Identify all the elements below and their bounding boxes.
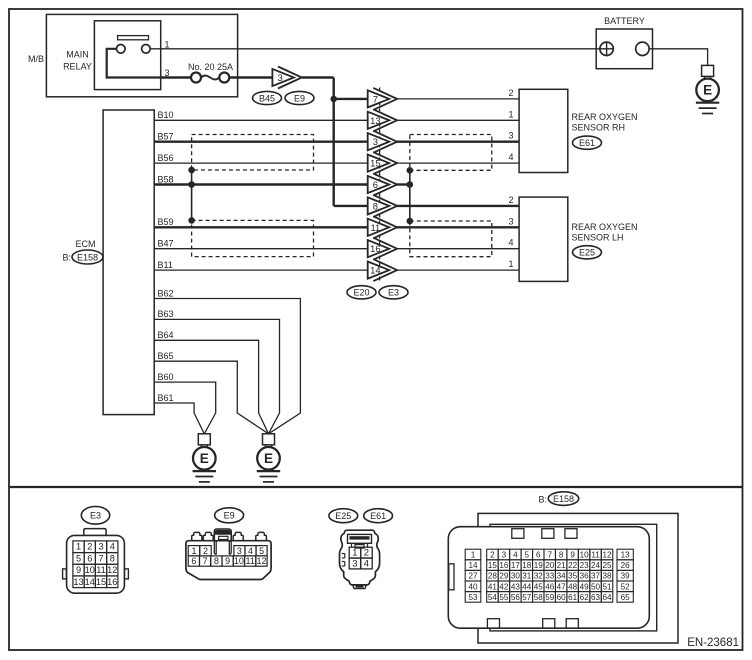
svg-text:E3: E3 [90, 511, 101, 521]
svg-text:RELAY: RELAY [63, 62, 92, 72]
label E9 [285, 91, 314, 104]
svg-text:26: 26 [621, 561, 631, 570]
svg-text:35: 35 [568, 572, 578, 581]
wire B62 [154, 299, 300, 434]
svg-text:B59: B59 [158, 217, 174, 227]
relay contact terminals [117, 45, 126, 54]
svg-text:55: 55 [499, 593, 509, 602]
wire E20/E3 pin 11 to sensor pin 3 [396, 226, 519, 228]
connector B45/E9 pin 3 [272, 69, 294, 86]
svg-text:36: 36 [580, 572, 590, 581]
svg-text:8: 8 [110, 553, 115, 563]
svg-text:25: 25 [603, 561, 613, 570]
svg-text:13: 13 [370, 115, 380, 126]
svg-text:E25: E25 [579, 248, 595, 258]
svg-text:31: 31 [522, 572, 532, 581]
svg-text:B47: B47 [158, 239, 174, 249]
svg-text:4: 4 [364, 558, 369, 569]
svg-text:11: 11 [96, 565, 106, 575]
svg-text:16: 16 [370, 243, 380, 254]
svg-text:34: 34 [557, 572, 567, 581]
svg-text:23: 23 [580, 561, 590, 570]
svg-text:ECM: ECM [76, 239, 96, 249]
svg-text:E158: E158 [77, 252, 98, 262]
svg-text:4: 4 [508, 152, 513, 162]
svg-text:6: 6 [536, 551, 541, 560]
svg-text:4: 4 [110, 542, 115, 552]
svg-text:10: 10 [234, 556, 244, 566]
svg-text:24: 24 [591, 561, 601, 570]
connector E20/E3 pin 11 [368, 219, 390, 236]
connector E20/E3 pin 8 [368, 197, 390, 214]
battery box [596, 29, 652, 69]
svg-text:65: 65 [621, 593, 631, 602]
svg-text:B63: B63 [158, 309, 174, 319]
svg-text:2: 2 [203, 546, 208, 556]
wire E20/E3 pin 8 to sensor pin 2 [396, 205, 519, 207]
wire supply horizontal [302, 76, 334, 78]
svg-text:53: 53 [468, 593, 478, 602]
svg-text:52: 52 [621, 582, 631, 591]
svg-text:B57: B57 [158, 132, 174, 142]
svg-text:22: 22 [568, 561, 578, 570]
svg-text:39: 39 [621, 572, 631, 581]
connector view E158 back plate [478, 513, 678, 643]
svg-text:28: 28 [488, 572, 498, 581]
connector view E25/E61 pin grid [349, 547, 361, 558]
wire B11 [154, 269, 367, 271]
ground E ECM right [263, 434, 275, 445]
label E9 (bottom view) [215, 508, 244, 523]
svg-text:5: 5 [259, 546, 264, 556]
svg-text:29: 29 [499, 572, 509, 581]
svg-text:17: 17 [511, 561, 521, 570]
svg-text:1: 1 [352, 548, 357, 559]
label E61 [573, 136, 602, 149]
rear oxygen sensor LH box [519, 197, 568, 281]
svg-text:E25: E25 [335, 511, 351, 521]
junction dot left shield RH [188, 167, 195, 174]
svg-text:7: 7 [373, 93, 378, 104]
connector view E9 pin grid [188, 546, 200, 556]
shield left LH (dashed) [192, 220, 314, 256]
svg-text:16: 16 [107, 577, 117, 587]
svg-text:14: 14 [370, 265, 380, 276]
shield right RH (dashed) [410, 135, 492, 171]
wire E20/E3 pin 13 to sensor pin 1 [396, 119, 519, 121]
svg-text:REAR OXYGEN: REAR OXYGEN [572, 112, 638, 122]
wire E20/E3 pin 14 to sensor pin 1 [396, 269, 519, 271]
svg-text:16: 16 [499, 561, 509, 570]
svg-text:13: 13 [73, 577, 83, 587]
junction dot right row 6 [407, 181, 414, 188]
svg-text:6: 6 [87, 553, 92, 563]
svg-text:4: 4 [508, 238, 513, 248]
label E3 [379, 286, 408, 299]
svg-text:MAIN: MAIN [66, 50, 89, 60]
svg-text:51: 51 [603, 582, 613, 591]
svg-text:BATTERY: BATTERY [604, 16, 645, 26]
ECM box [103, 110, 154, 415]
svg-text:B11: B11 [158, 260, 173, 270]
svg-text:27: 27 [468, 572, 478, 581]
svg-text:B61: B61 [158, 393, 174, 403]
svg-text:2: 2 [490, 551, 495, 560]
wire fuse to connector B45/E9 [229, 76, 272, 78]
wire battery to ground [649, 49, 708, 66]
connector view E158 body [448, 527, 649, 629]
svg-text:E9: E9 [294, 93, 305, 103]
shield drain wire right [409, 170, 411, 221]
svg-text:B60: B60 [158, 372, 174, 382]
svg-text:59: 59 [545, 593, 555, 602]
svg-text:1: 1 [191, 546, 196, 556]
svg-text:E158: E158 [553, 494, 574, 504]
svg-text:15: 15 [96, 577, 106, 587]
svg-text:1: 1 [508, 259, 513, 269]
svg-text:B64: B64 [158, 330, 174, 340]
connector view E158 inner plate [490, 524, 657, 631]
svg-text:10: 10 [580, 551, 590, 560]
svg-text:38: 38 [603, 572, 613, 581]
svg-text:12: 12 [107, 565, 117, 575]
connector E20/E3 pin 15 [368, 155, 390, 172]
wire relay pin1 to battery [150, 48, 600, 50]
wire B61 [154, 403, 204, 434]
shield left RH (dashed) [192, 135, 314, 171]
svg-text:12: 12 [603, 551, 613, 560]
shield right LH (dashed) [410, 221, 492, 257]
svg-text:7: 7 [547, 551, 552, 560]
wire supply to pin 8 [334, 205, 368, 207]
svg-text:3: 3 [98, 542, 103, 552]
svg-text:3: 3 [508, 131, 513, 141]
svg-text:19: 19 [534, 561, 544, 570]
svg-text:E61: E61 [370, 511, 386, 521]
svg-text:B10: B10 [158, 110, 174, 120]
svg-text:8: 8 [373, 200, 378, 211]
wire E20/E3 pin 3 to sensor pin 3 [396, 140, 519, 142]
svg-text:SENSOR RH: SENSOR RH [572, 122, 626, 132]
label E20 [347, 286, 376, 299]
svg-text:B45: B45 [259, 93, 275, 103]
connector E20/E3 pin 14 [368, 262, 390, 279]
connector view E3 pin grid [73, 541, 84, 553]
svg-text:40: 40 [468, 582, 478, 591]
svg-text:1: 1 [471, 551, 476, 560]
svg-text:47: 47 [557, 582, 567, 591]
shield drain wire left [191, 170, 193, 220]
wire E20/E3 pin 16 to sensor pin 4 [396, 248, 519, 250]
fuse No. 20 25A [191, 73, 201, 83]
svg-text:50: 50 [591, 582, 601, 591]
svg-text:56: 56 [511, 593, 521, 602]
svg-text:43: 43 [511, 582, 521, 591]
svg-text:B62: B62 [158, 288, 174, 298]
svg-text:21: 21 [557, 561, 567, 570]
svg-text:48: 48 [568, 582, 578, 591]
svg-text:E20: E20 [353, 288, 369, 298]
label E25 (bottom view) [329, 509, 358, 523]
svg-text:B56: B56 [158, 153, 174, 163]
label E25 [573, 246, 602, 259]
svg-text:B65: B65 [158, 351, 174, 361]
svg-text:9: 9 [570, 551, 575, 560]
wire E20/E3 pin 7 to sensor pin 2 [396, 98, 519, 100]
ground E battery [702, 65, 714, 76]
svg-text:3: 3 [373, 136, 378, 147]
wire B63 [154, 319, 279, 433]
svg-text:7: 7 [98, 553, 103, 563]
battery positive terminal [600, 42, 613, 55]
svg-text:46: 46 [545, 582, 555, 591]
svg-text:3: 3 [237, 546, 242, 556]
junction dot right shield RH [407, 167, 414, 174]
svg-text:62: 62 [580, 593, 590, 602]
svg-text:11: 11 [591, 551, 600, 560]
svg-text:37: 37 [591, 572, 601, 581]
svg-text:B:: B: [538, 494, 547, 504]
junction dot left shield LH [188, 217, 195, 224]
svg-text:41: 41 [488, 582, 498, 591]
svg-text:11: 11 [246, 556, 255, 566]
svg-text:13: 13 [621, 551, 631, 560]
svg-text:14: 14 [468, 561, 478, 570]
svg-text:REAR OXYGEN: REAR OXYGEN [572, 222, 638, 232]
svg-text:B58: B58 [158, 174, 174, 184]
svg-text:30: 30 [511, 572, 521, 581]
svg-text:E3: E3 [388, 288, 399, 298]
svg-text:15: 15 [488, 561, 498, 570]
main relay box [94, 21, 160, 90]
connector view E158 pin grid [465, 549, 481, 560]
svg-text:SENSOR LH: SENSOR LH [572, 232, 624, 242]
svg-text:6: 6 [191, 556, 196, 566]
svg-text:6: 6 [373, 179, 378, 190]
wire E20/E3 pin 15 to sensor pin 4 [396, 162, 519, 164]
svg-text:B:: B: [62, 253, 71, 263]
svg-text:42: 42 [499, 582, 509, 591]
svg-text:E: E [200, 451, 209, 466]
svg-text:4: 4 [248, 546, 253, 556]
svg-text:No. 20 25A: No. 20 25A [188, 62, 233, 72]
connector E20/E3 pin 6 [368, 176, 390, 193]
wire B57 [154, 140, 367, 142]
wire B59 [154, 226, 367, 228]
connector view E25/E61 body [340, 530, 380, 585]
svg-text:9: 9 [225, 556, 230, 566]
svg-text:M/B: M/B [28, 54, 44, 64]
connector E20/E3 pin 13 [368, 112, 390, 129]
relay coil [118, 36, 149, 40]
connector E20/E3 pin 16 [368, 240, 390, 257]
M/B fuse box [46, 14, 237, 96]
svg-text:5: 5 [525, 551, 530, 560]
svg-text:54: 54 [488, 593, 498, 602]
svg-text:33: 33 [545, 572, 555, 581]
svg-text:5: 5 [76, 553, 81, 563]
svg-text:2: 2 [364, 548, 369, 559]
svg-text:4: 4 [513, 551, 518, 560]
svg-text:11: 11 [371, 222, 381, 233]
svg-text:EN-23681: EN-23681 [687, 637, 739, 649]
label B45 [253, 91, 282, 104]
svg-text:2: 2 [508, 195, 513, 205]
svg-text:44: 44 [522, 582, 532, 591]
svg-text:3: 3 [352, 558, 357, 569]
wire supply vertical [333, 78, 335, 206]
svg-text:49: 49 [580, 582, 590, 591]
ground E ECM left [198, 434, 210, 445]
wire B58 [154, 183, 367, 185]
svg-text:2: 2 [87, 542, 92, 552]
junction dot supply row 7 [330, 96, 337, 103]
connector E20/E3 pin 3 [368, 133, 390, 150]
wire E20/E3 pin 6 to shield drain junction [396, 183, 410, 185]
connector E20/E3 separation line (dashed) [379, 88, 381, 283]
svg-text:64: 64 [603, 593, 613, 602]
svg-text:32: 32 [534, 572, 544, 581]
svg-text:3: 3 [508, 216, 513, 226]
section separator line [9, 486, 743, 488]
svg-text:12: 12 [256, 556, 266, 566]
wire B56 [154, 162, 367, 164]
svg-text:61: 61 [568, 593, 578, 602]
svg-text:10: 10 [85, 565, 95, 575]
rear oxygen sensor RH box [519, 89, 568, 172]
wire B64 [154, 340, 268, 434]
svg-text:18: 18 [522, 561, 532, 570]
svg-text:60: 60 [557, 593, 567, 602]
svg-text:1: 1 [508, 109, 513, 119]
svg-text:20: 20 [545, 561, 555, 570]
svg-text:E: E [703, 83, 712, 98]
svg-text:2: 2 [508, 88, 513, 98]
connector view E9 body [192, 532, 202, 540]
svg-text:1: 1 [76, 542, 81, 552]
wire B47 [154, 248, 367, 250]
label E61 (bottom view) [364, 509, 393, 523]
svg-text:1: 1 [165, 40, 170, 50]
svg-text:63: 63 [591, 593, 601, 602]
svg-text:58: 58 [534, 593, 544, 602]
wire supply to pin 7 [334, 98, 368, 100]
label E3 (bottom view) [81, 507, 109, 525]
svg-text:9: 9 [76, 565, 81, 575]
junction dot left B58 [188, 181, 195, 188]
svg-text:8: 8 [559, 551, 564, 560]
wire B10 [154, 119, 367, 121]
svg-text:57: 57 [522, 593, 532, 602]
svg-text:3: 3 [277, 72, 282, 83]
svg-text:7: 7 [203, 556, 208, 566]
connector view E3 shell [84, 529, 106, 536]
svg-text:45: 45 [534, 582, 544, 591]
svg-text:14: 14 [85, 577, 95, 587]
svg-text:E61: E61 [579, 138, 595, 148]
svg-text:E: E [264, 451, 273, 466]
connector E20/E3 pin 7 [368, 90, 390, 107]
relay contact arm wire [107, 49, 161, 78]
wire B65 [154, 361, 268, 434]
battery negative terminal [636, 42, 649, 55]
svg-text:8: 8 [214, 556, 219, 566]
junction dot right shield LH [407, 218, 414, 225]
svg-text:15: 15 [370, 158, 380, 169]
wire relay pin3 to fuse [161, 76, 191, 78]
wire B60 [154, 382, 216, 434]
svg-text:3: 3 [502, 551, 507, 560]
svg-text:E9: E9 [224, 511, 235, 521]
